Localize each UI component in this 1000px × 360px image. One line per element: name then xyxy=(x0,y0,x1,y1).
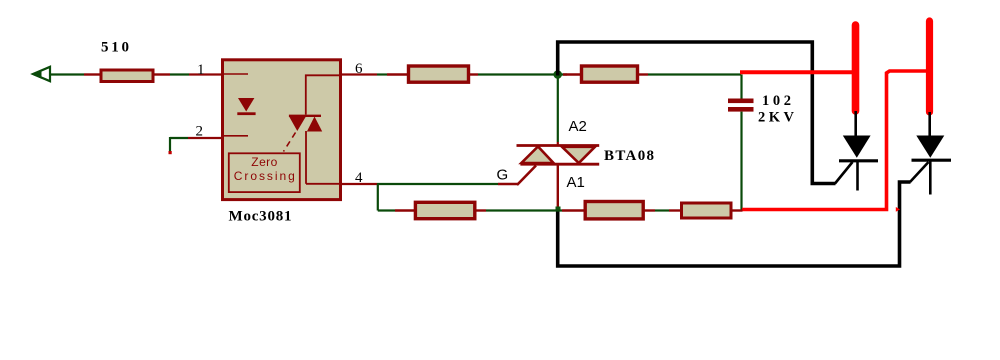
svg-text:G: G xyxy=(497,167,509,184)
op-amp U1 optocoupler MOC3081 body xyxy=(223,60,341,200)
wire xyxy=(478,73,567,75)
wire xyxy=(486,209,562,211)
wire xyxy=(377,73,387,75)
pin 4 xyxy=(341,183,377,185)
wire black mains bottom xyxy=(558,182,911,266)
svg-text:A1: A1 xyxy=(567,174,585,191)
pin 6 xyxy=(341,73,377,75)
thyristor D1 xyxy=(835,111,878,191)
svg-text:6: 6 xyxy=(355,61,363,77)
thyristor D2 xyxy=(910,112,951,195)
wire red bottom xyxy=(742,71,930,210)
resistor R1 xyxy=(387,66,478,82)
electrode E1 xyxy=(852,25,860,111)
dashed gate line to zero crossing xyxy=(284,133,296,152)
svg-text:2KV: 2KV xyxy=(758,109,795,125)
zero crossing box xyxy=(229,153,300,192)
pin 1 xyxy=(189,73,222,75)
wire gate stub xyxy=(498,183,518,185)
wire xyxy=(170,73,189,75)
wire xyxy=(655,209,669,211)
node junction top xyxy=(553,70,562,79)
LED D3 inside optocoupler xyxy=(237,98,255,115)
capacitor C1 xyxy=(728,75,754,210)
svg-text:Zero: Zero xyxy=(251,155,277,169)
svg-text:2: 2 xyxy=(196,124,204,140)
resistor R510 xyxy=(84,70,170,82)
resistor R4 xyxy=(562,202,655,219)
resistor R3 xyxy=(395,202,486,218)
terminal arrow xyxy=(33,67,50,81)
red wire end marker xyxy=(896,207,900,212)
svg-text:A2: A2 xyxy=(569,118,587,135)
wire xyxy=(169,137,189,154)
wire xyxy=(50,73,84,75)
svg-text:BTA08: BTA08 xyxy=(604,148,654,164)
wire black mains top xyxy=(558,42,836,184)
resistor R5 xyxy=(669,203,743,218)
electrode E2 xyxy=(926,21,933,112)
svg-text:510: 510 xyxy=(101,40,129,56)
wire red top xyxy=(740,70,855,74)
wire xyxy=(648,73,741,75)
svg-text:102: 102 xyxy=(762,93,791,109)
svg-text:1: 1 xyxy=(197,62,205,78)
triac U2 BTA08 xyxy=(517,78,600,210)
svg-text:Moc3081: Moc3081 xyxy=(229,209,292,225)
resistor R2 xyxy=(563,66,648,82)
svg-text:4: 4 xyxy=(355,170,363,186)
pin 1 internal stub xyxy=(224,73,248,75)
internal photo-triac xyxy=(289,75,341,184)
wire gate row xyxy=(377,184,498,211)
node junction bottom xyxy=(556,207,561,212)
pin 2 internal stub xyxy=(224,135,248,137)
pin 2 xyxy=(188,137,222,139)
